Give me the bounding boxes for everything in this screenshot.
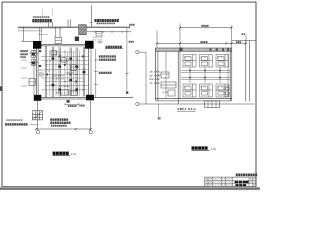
dim text 1 xyxy=(202,25,204,27)
left side ticks xyxy=(21,60,27,86)
svg-text:XX DN65: XX DN65 xyxy=(59,85,70,88)
pipe cluster near right wall xyxy=(225,86,231,96)
svg-text:B-5: B-5 xyxy=(201,86,207,89)
axis bubble bottom-right xyxy=(89,131,92,134)
border frame right xyxy=(255,2,257,187)
svg-text:YL XXX: YL XXX xyxy=(150,82,160,85)
svg-text:JS XX: JS XX xyxy=(162,91,169,94)
column BR xyxy=(86,95,94,101)
bottom dim text xyxy=(51,125,67,127)
bottom dimension line xyxy=(36,128,91,130)
pipes to equipment box xyxy=(55,27,57,38)
wall junction blob xyxy=(179,48,182,51)
dim line 2 xyxy=(157,42,246,44)
dim text right of line B xyxy=(129,41,131,43)
riser pipe left of annotation xyxy=(90,5,92,27)
valve rect 3 xyxy=(71,65,77,71)
interior pipe verticals xyxy=(45,46,84,98)
svg-text:JI ZU XX: JI ZU XX xyxy=(52,77,64,80)
wall line to frame xyxy=(232,40,256,42)
svg-text:XX: XX xyxy=(46,60,51,63)
far right wall pair xyxy=(245,41,247,102)
left vertical connector xyxy=(23,27,25,41)
svg-text:DN80: DN80 xyxy=(61,59,70,62)
outside-left annotation rows xyxy=(150,71,160,85)
left wall xyxy=(154,48,156,100)
dark blob left of chase xyxy=(75,37,79,42)
riser pipes pair mid xyxy=(67,20,69,28)
column BL xyxy=(34,95,42,101)
pump group B3 xyxy=(216,84,229,97)
tick bottom on extension xyxy=(126,92,128,94)
svg-text:1:50: 1:50 xyxy=(71,153,77,156)
tick mid on extension xyxy=(125,73,128,75)
annotation underline top-left xyxy=(32,22,53,24)
svg-text:XXXXX: XXXXX xyxy=(213,178,222,181)
upper wall line B with ticks xyxy=(87,31,131,33)
svg-text:B-2: B-2 xyxy=(201,56,207,59)
door box below wall xyxy=(205,101,220,108)
axis bubble bottom-left xyxy=(36,131,39,134)
svg-text:1:50: 1:50 xyxy=(211,148,217,151)
pump group B2 xyxy=(200,84,213,97)
room top wall xyxy=(41,43,86,45)
plus mark xyxy=(97,41,103,43)
right plan title glyph blocks xyxy=(192,146,208,149)
annotation text top-left xyxy=(33,16,49,18)
svg-text:XXXX: XXXX xyxy=(226,178,233,181)
wall-mounted equipment xyxy=(29,79,35,86)
right wall xyxy=(229,48,231,100)
note text under plan xyxy=(50,118,68,120)
faint parallel line below A xyxy=(18,27,62,29)
svg-text:PQ XXX: PQ XXX xyxy=(93,39,103,42)
valve rect 2 xyxy=(61,58,67,62)
leader note bottom-left xyxy=(5,123,28,125)
pump group A1 xyxy=(183,55,196,68)
tick at end of line A xyxy=(129,26,131,29)
extension vertical x180 xyxy=(179,24,181,49)
left room equipment xyxy=(158,52,176,98)
tiny text near x244 xyxy=(242,33,244,35)
svg-text:SHUI BENG: SHUI BENG xyxy=(52,75,64,78)
valve dots on pipes xyxy=(52,58,86,91)
axis vertical line xyxy=(145,52,147,104)
title block cell texts xyxy=(205,178,256,187)
vertical pair above TL column xyxy=(39,27,41,41)
svg-text:MAO XX: MAO XX xyxy=(93,36,103,39)
hatched chase box xyxy=(79,25,87,35)
pipe below BR column xyxy=(90,100,92,130)
pump group B1 xyxy=(183,84,196,97)
svg-text:XXXX: XXXX xyxy=(226,181,233,184)
valve marks on headers xyxy=(189,70,221,79)
header pipes between rows xyxy=(181,53,230,97)
faint risers above annotation xyxy=(41,9,43,17)
svg-text:DN50: DN50 xyxy=(71,66,80,69)
long bottom axis line xyxy=(139,103,254,105)
valve rect 1 xyxy=(51,51,57,55)
right side annotation underlined xyxy=(106,46,122,49)
border frame bottom xyxy=(2,185,256,187)
faint note row above leader note xyxy=(6,119,22,121)
short wall stub left of TL column xyxy=(21,40,33,42)
pump row labels xyxy=(184,56,223,89)
left plan title underline xyxy=(53,155,71,157)
svg-text:B-4: B-4 xyxy=(184,86,190,89)
tiny text at line A end xyxy=(129,24,131,26)
equipment box above wall xyxy=(55,37,61,43)
extension vertical x157 xyxy=(156,31,158,49)
title block rows xyxy=(205,180,256,182)
secondary line left xyxy=(18,30,42,32)
bottom wall xyxy=(155,98,231,100)
top wall hatched band xyxy=(155,48,231,51)
internal dim line below plan xyxy=(65,103,79,105)
dim tick mid xyxy=(75,128,77,130)
upper wall line A xyxy=(18,26,130,28)
scan edge band bottom xyxy=(0,187,260,190)
extension vertical x246 xyxy=(245,35,247,41)
left room labels xyxy=(162,73,170,94)
room right wall xyxy=(88,45,90,99)
pipe below BL column xyxy=(37,101,39,130)
pump bottom 2 xyxy=(70,91,77,96)
column TR xyxy=(85,41,94,49)
text right of dim xyxy=(79,105,81,107)
binder mark on left frame xyxy=(0,86,3,91)
dim tick right xyxy=(90,128,92,130)
page background xyxy=(0,0,260,194)
axis line from bubble 1 xyxy=(139,51,146,53)
svg-text:XBFJ XX: XBFJ XX xyxy=(177,107,193,111)
left wall riser valves cluster xyxy=(30,49,44,95)
dim text below xyxy=(68,105,70,107)
leader line xyxy=(30,124,38,126)
dim tick left xyxy=(35,128,37,130)
svg-text:XXXX: XXXX xyxy=(226,184,233,187)
right plan title underline xyxy=(192,149,210,151)
border frame top xyxy=(2,1,256,3)
svg-text:XH SB: XH SB xyxy=(162,73,170,76)
small box right of chase xyxy=(96,32,102,37)
interior small squares xyxy=(46,56,84,83)
pipe right of wall xyxy=(95,49,97,98)
dim line 1 top xyxy=(180,27,232,29)
interior pipe horizontals xyxy=(38,50,89,96)
svg-text:JS XXX: JS XXX xyxy=(150,71,160,74)
tiny text right of chase xyxy=(93,36,103,42)
axis stub below left wall xyxy=(158,104,160,117)
dark mark below bottom wall xyxy=(67,100,70,102)
svg-text:BENG 1: BENG 1 xyxy=(56,92,66,95)
pump bottom 1 xyxy=(61,90,69,95)
axis bubble 2 xyxy=(136,102,139,105)
column TL xyxy=(33,41,41,49)
right side annotation rows xyxy=(99,55,116,57)
leader pipes from top-left annotation xyxy=(48,23,50,27)
title block outline xyxy=(205,176,256,178)
pump group A2 xyxy=(200,55,213,68)
interior text labels xyxy=(46,53,80,95)
annotation text top-right xyxy=(94,19,118,22)
svg-text:XXXXX: XXXXX xyxy=(213,184,222,187)
right dim extension vertical xyxy=(126,28,128,93)
short line above column xyxy=(38,33,48,35)
left side tiny dim text xyxy=(20,50,27,52)
extension vertical x231.6 xyxy=(231,26,233,49)
svg-text:B-6: B-6 xyxy=(217,86,223,89)
svg-text:B-3: B-3 xyxy=(217,56,223,59)
title cell bold text xyxy=(235,181,249,186)
drawing number text xyxy=(236,174,257,177)
equipment below plan xyxy=(33,111,43,120)
dim text 2 xyxy=(200,41,202,43)
svg-text:PS XXX: PS XXX xyxy=(150,78,160,81)
svg-text:B-1: B-1 xyxy=(184,56,190,59)
axis bubble 1 xyxy=(136,51,139,54)
pump group A3 xyxy=(216,55,229,68)
bottom wall extension right xyxy=(94,97,133,99)
title block columns xyxy=(208,177,253,186)
internal wall xyxy=(177,51,179,104)
room left wall xyxy=(35,45,37,99)
left plan title glyph blocks xyxy=(53,152,69,155)
svg-text:XXXXX: XXXXX xyxy=(213,181,222,184)
riser dark valves xyxy=(32,53,35,56)
room bottom wall xyxy=(41,96,86,98)
border frame left xyxy=(1,2,3,187)
interior crossing ticks xyxy=(47,54,85,90)
